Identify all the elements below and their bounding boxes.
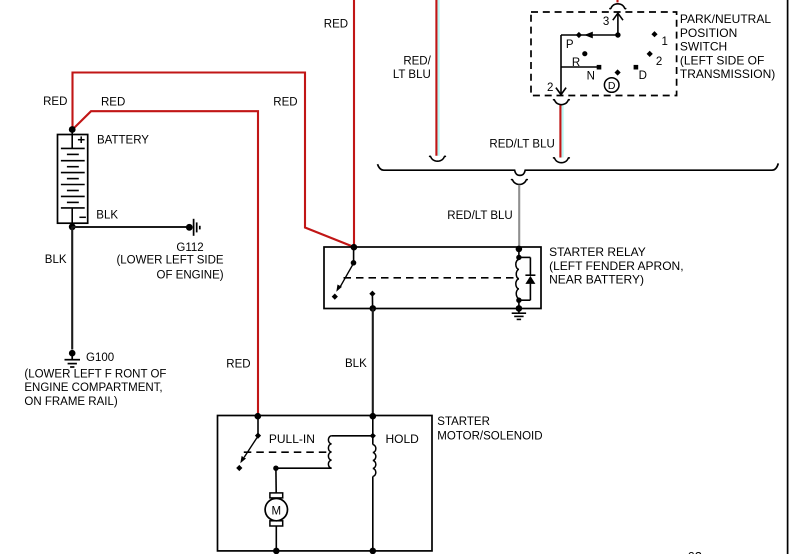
svg-text:RED: RED (101, 96, 125, 108)
svg-text:62: 62 (688, 549, 702, 554)
svg-text:PULL-IN: PULL-IN (269, 432, 315, 446)
svg-text:HOLD: HOLD (386, 432, 420, 446)
svg-text:BLK: BLK (45, 254, 67, 266)
svg-text:G112: G112 (176, 242, 203, 254)
svg-text:(LOWER LEFT F RONT OF: (LOWER LEFT F RONT OF (24, 368, 166, 380)
svg-text:(LEFT FENDER APRON,: (LEFT FENDER APRON, (549, 259, 683, 273)
svg-text:STARTER: STARTER (437, 416, 490, 428)
svg-text:M: M (272, 505, 282, 517)
svg-text:RED: RED (324, 18, 348, 30)
svg-text:ON FRAME RAIL): ON FRAME RAIL) (24, 396, 117, 408)
svg-text:STARTER RELAY: STARTER RELAY (549, 245, 646, 259)
svg-text:1: 1 (662, 36, 668, 48)
svg-text:TRANSMISSION): TRANSMISSION) (680, 67, 775, 81)
svg-text:D: D (639, 70, 647, 82)
svg-text:NEAR BATTERY): NEAR BATTERY) (549, 273, 644, 287)
svg-text:RED: RED (273, 96, 297, 108)
svg-text:(LOWER LEFT SIDE: (LOWER LEFT SIDE (116, 255, 223, 267)
svg-text:D: D (608, 80, 616, 92)
svg-text:BLK: BLK (96, 209, 118, 221)
svg-text:BLK: BLK (345, 358, 367, 370)
svg-text:POSITION: POSITION (680, 26, 737, 40)
svg-text:3: 3 (603, 16, 609, 28)
svg-text:2: 2 (656, 56, 662, 68)
svg-text:OF ENGINE): OF ENGINE) (157, 269, 224, 281)
svg-text:N: N (587, 71, 595, 83)
svg-text:(LEFT SIDE OF: (LEFT SIDE OF (680, 53, 764, 67)
svg-text:P: P (566, 39, 574, 51)
svg-text:R: R (572, 57, 580, 69)
svg-text:G100: G100 (86, 352, 114, 364)
svg-text:PARK/NEUTRAL: PARK/NEUTRAL (680, 12, 771, 26)
svg-text:SWITCH: SWITCH (680, 40, 727, 54)
svg-text:RED: RED (43, 96, 67, 108)
svg-text:LT BLU: LT BLU (393, 69, 431, 81)
svg-text:RED/: RED/ (403, 56, 431, 68)
svg-text:BATTERY: BATTERY (97, 135, 149, 147)
svg-text:ENGINE COMPARTMENT,: ENGINE COMPARTMENT, (24, 382, 162, 394)
svg-text:RED/LT BLU: RED/LT BLU (447, 210, 512, 222)
svg-text:RED/LT BLU: RED/LT BLU (489, 138, 554, 150)
svg-text:MOTOR/SOLENOID: MOTOR/SOLENOID (437, 430, 542, 442)
svg-text:RED: RED (226, 358, 250, 370)
svg-text:2: 2 (547, 82, 553, 94)
